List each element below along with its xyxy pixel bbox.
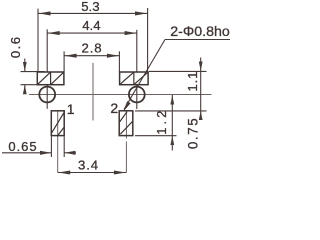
svg-text:1.1: 1.1	[185, 71, 200, 92]
extension line 2.8 right	[118, 51, 120, 72]
leader 2-phi0.8hole underline	[165, 39, 230, 41]
dimension 0.6 vertical	[24, 59, 26, 72]
svg-text:0.75: 0.75	[185, 117, 200, 149]
svg-text:1: 1	[67, 101, 75, 117]
leader diagonal with arrow	[124, 40, 165, 110]
wire vertical drawing center line	[92, 63, 94, 121]
svg-text:2: 2	[110, 100, 118, 116]
svg-text:0.6: 0.6	[8, 36, 23, 59]
pad 1 bottom (hatched)	[51, 111, 64, 136]
svg-text:4.4: 4.4	[82, 18, 100, 33]
svg-text:0.65: 0.65	[8, 139, 37, 154]
extension line 2.8 left	[63, 51, 65, 72]
dimension 0.65	[2, 152, 51, 154]
svg-text:2-Φ0.8hole: 2-Φ0.8hole	[170, 24, 230, 40]
extension line 0.6 bottom	[21, 84, 45, 86]
dimension 2.8	[64, 55, 119, 57]
extension line 5.3 right	[147, 8, 149, 72]
svg-text:5.3: 5.3	[81, 0, 99, 14]
extension line 4.4 right / hole 2 center	[136, 30, 138, 72]
pad P1 top (hatched)	[37, 72, 64, 85]
svg-text:1.2: 1.2	[155, 108, 169, 135]
extension line 0.65 right	[63, 137, 65, 158]
extension line 0.6 top	[21, 71, 45, 73]
extension line 0.65 left	[50, 137, 52, 158]
extension line pads bottom top edge right	[135, 110, 207, 112]
dimension 1.2 vertical line	[171, 95, 173, 151]
pad 2 bottom (hatched)	[119, 111, 133, 136]
extension line 1.1 top (pad top right)	[149, 70, 207, 72]
wire center line pad2 bottom	[125, 110, 127, 139]
dimension 1.1 / 0.75 vertical line	[200, 58, 202, 118]
hole 1 circle	[39, 87, 55, 103]
extension line 5.3 left	[37, 9, 39, 72]
dimension 5.3	[38, 12, 148, 14]
svg-text:2.8: 2.8	[81, 40, 102, 55]
extension line 4.4 left / hole 1 center	[46, 29, 48, 72]
dimension 4.4	[47, 32, 137, 34]
hole 2 circle	[129, 87, 145, 103]
svg-text:3.4: 3.4	[78, 157, 99, 172]
wire horizontal hole center line	[29, 94, 212, 96]
dimension 3.4	[58, 172, 127, 174]
pad P2 top (hatched)	[120, 72, 149, 85]
extension line pads bottom lower edge right	[135, 135, 177, 137]
wire center line pad1 bottom	[57, 110, 59, 173]
